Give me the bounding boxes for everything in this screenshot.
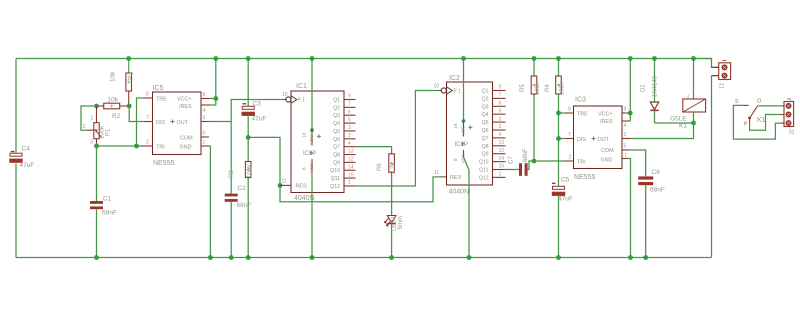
IC2 output Q7 pin 4 lead: [493, 137, 506, 139]
IC2 output Q10 pin 14 lead: [493, 161, 506, 163]
wire right rail to bottom bus: [711, 76, 713, 258]
svg-text:5mm: 5mm: [398, 216, 404, 229]
wire VCC bus to J1 pin 1: [694, 59, 719, 68]
svg-text:G5LE: G5LE: [670, 116, 687, 123]
wire IC5 TRI row to P1 bottom and C1: [97, 144, 142, 147]
svg-text:C7: C7: [509, 156, 515, 164]
svg-text:Q8: Q8: [333, 153, 340, 159]
junction TRE-TRI vertical at TRI row: [134, 144, 139, 149]
svg-text:9: 9: [348, 94, 351, 100]
svg-text:O: O: [757, 99, 761, 105]
svg-text:Q4: Q4: [482, 112, 489, 118]
svg-text:Q12: Q12: [330, 184, 340, 190]
wire GND bottom bus: [16, 257, 712, 259]
junction R3 at GND bus: [246, 255, 251, 260]
svg-text:14: 14: [499, 156, 505, 162]
IC3 origin cross: [592, 137, 596, 141]
wire IC5 GND pin1 to bottom bus: [209, 146, 210, 258]
svg-text:TRI: TRI: [577, 159, 586, 165]
svg-text:LED1: LED1: [392, 215, 398, 231]
svg-text:Q5: Q5: [333, 129, 340, 135]
capacitor C5 47uF (polarized): [553, 186, 565, 189]
connector J2 (3-pin): [784, 102, 794, 127]
svg-text:100K: 100K: [248, 164, 254, 178]
svg-text:6: 6: [348, 109, 351, 115]
IC3 pin 5 COM lead: [622, 149, 629, 151]
capacitor C4 47uF (polarized, on left rail): [10, 153, 22, 156]
svg-text:S: S: [735, 99, 739, 105]
svg-text:D1: D1: [641, 84, 647, 92]
wire node A down to IC5 DIS pin 7: [129, 106, 144, 122]
IC5 origin cross: [171, 120, 175, 124]
wire IC3 VCC pin8/pin4 to top bus: [629, 59, 631, 122]
wire IC1 Q12 to IC2 clock: [356, 91, 439, 186]
svg-text:R2: R2: [112, 113, 121, 120]
IC2 VDD pin 16 (from top bus): [463, 59, 465, 122]
svg-text:Q1: Q1: [482, 89, 489, 95]
svg-text:2: 2: [83, 124, 86, 130]
IC5 pin 7 DIS lead: [144, 121, 153, 123]
IC2 output Q3 pin 6 lead: [493, 105, 506, 107]
relay coil K1 G5LE: [693, 59, 695, 100]
IC2 output Q8 pin 13 lead: [493, 145, 506, 147]
svg-text:Q11: Q11: [331, 176, 341, 182]
wire IC1 VSS to GND bus: [311, 173, 313, 258]
junction R4 line at IC3 DIS pin 7: [556, 136, 561, 141]
IC1 output Q11 pin 15 lead: [344, 177, 356, 179]
svg-text:TRE: TRE: [156, 96, 167, 102]
svg-text:1: 1: [91, 116, 94, 122]
wire IC2 VSS diagonal to GND bus: [464, 157, 470, 258]
svg-text:10k: 10k: [108, 97, 119, 104]
svg-text:R6: R6: [377, 163, 383, 171]
svg-text:DIS: DIS: [577, 137, 586, 143]
wire IC3 COM to C6: [629, 150, 646, 176]
svg-text:9: 9: [499, 85, 502, 91]
svg-text:GND: GND: [180, 144, 192, 150]
svg-text:R4: R4: [545, 84, 551, 92]
wire to IC3 TRE pin 6: [559, 112, 566, 114]
svg-text:8: 8: [301, 167, 307, 170]
junction IC5 pin8/pin4: [213, 96, 218, 101]
junction TRI node: R5 / C7 / IC3 TRI: [532, 159, 537, 164]
IC5 pin 6 TRE lead: [144, 97, 153, 99]
junction C2 at GND bus: [229, 255, 234, 260]
junction R2 left / P1 top: [94, 104, 99, 109]
svg-text:Q12: Q12: [479, 175, 489, 181]
svg-text:R3: R3: [229, 170, 235, 178]
IC2 output Q6 pin 2 lead: [493, 129, 506, 131]
junction relay/D1/IC3-OUT node: [691, 121, 696, 126]
svg-text:TRI: TRI: [156, 144, 165, 150]
IC1 output Q4 pin 5 lead: [344, 122, 356, 124]
IC2 output Q9 pin 12 lead: [493, 153, 506, 155]
svg-text:P: P: [744, 122, 748, 128]
svg-text:68nF: 68nF: [237, 202, 252, 209]
wire IC5 VCC pin8/pin4 to top bus: [209, 98, 216, 100]
svg-text:2: 2: [499, 124, 502, 130]
svg-text:R1: R1: [128, 71, 135, 80]
svg-text:IC1: IC1: [296, 83, 307, 90]
svg-text:Q3: Q3: [482, 104, 489, 110]
IC2 output Q11 pin 15 lead: [493, 169, 506, 171]
wire IC5 OUT to IC1 clock: [209, 100, 284, 122]
capacitor C2 68nF: [225, 194, 238, 197]
svg-text:1: 1: [625, 153, 628, 159]
svg-text:3: 3: [499, 116, 502, 122]
IC2 output Q1 pin 9 lead: [493, 90, 506, 92]
IC1 origin cross gate A: [317, 134, 321, 138]
svg-text:Q9: Q9: [482, 152, 489, 158]
svg-text:13: 13: [499, 140, 505, 146]
wire IC1 Q7 to R6: [356, 147, 392, 154]
resistor R6 2.2k: [389, 154, 395, 173]
IC1 output Q1 pin 9 lead: [344, 99, 356, 101]
IC2 clock pin 10 (bubble): [439, 90, 442, 92]
svg-text:4: 4: [624, 123, 627, 129]
wire contact P to J2 pin 2: [750, 115, 782, 131]
IC2 output Q2 pin 7 lead: [493, 97, 506, 99]
IC3 pin 4 /RES lead: [622, 120, 630, 122]
IC1 RES pin 11 lead: [280, 184, 291, 186]
svg-text:K1: K1: [757, 117, 766, 124]
capacitor C1 68nF: [96, 146, 98, 201]
wire VCC top bus: [16, 58, 712, 60]
svg-text:8: 8: [453, 158, 459, 161]
svg-text:VDD: VDD: [309, 134, 315, 145]
svg-text:3: 3: [90, 140, 93, 146]
IC5 pin 8 VCC lead: [201, 98, 209, 100]
junction reset node: C3 / R3 / reset wire: [246, 135, 251, 140]
svg-text:8: 8: [624, 107, 627, 113]
svg-text:IC3: IC3: [575, 97, 586, 104]
svg-text:Q9: Q9: [333, 160, 340, 166]
svg-text:3: 3: [348, 125, 351, 131]
relay contact K1 (SPDT): [744, 104, 749, 106]
svg-text:RES: RES: [296, 184, 307, 190]
wire left supply rail: [15, 59, 17, 153]
svg-text:Q1: Q1: [333, 98, 340, 104]
capacitor C7 68nF (vertical plates): [519, 163, 522, 176]
junction node A: R1 bottom / R2 right / DIS: [127, 104, 132, 109]
IC2 origin cross gate P: [461, 142, 465, 146]
svg-text:11: 11: [282, 179, 287, 185]
IC5 pin 3 OUT lead: [201, 121, 209, 123]
svg-text:100k: 100k: [560, 81, 566, 95]
junction R1 top at VCC bus: [126, 56, 131, 61]
IC5 pin 1 GND lead: [201, 145, 209, 147]
svg-text:Q6: Q6: [482, 128, 489, 134]
IC1 clock pin 10 (bubble): [284, 99, 286, 101]
svg-text:GND: GND: [601, 157, 613, 163]
svg-text:IC2P: IC2P: [455, 142, 468, 148]
wire IC5 TRE to TRI (pins 6-2): [137, 98, 145, 146]
svg-text:16: 16: [301, 132, 307, 138]
junction R4 line at IC3 TRE pin 6: [556, 111, 561, 116]
svg-text:1N4148: 1N4148: [653, 75, 659, 97]
capacitor C3 47uF (polarized): [247, 59, 249, 107]
diode D1 1N4148: [654, 59, 656, 102]
wire to IC3 DIS pin 7: [559, 138, 566, 140]
svg-text:47uF: 47uF: [558, 196, 573, 203]
IC2 output Q5 pin 3 lead: [493, 121, 506, 123]
potentiometer P1 100k (trimmer): [96, 106, 98, 123]
svg-text:Q3: Q3: [333, 113, 340, 119]
IC2 RES pin 11 lead: [441, 176, 447, 178]
wire IC5 OUT down to C2: [230, 122, 232, 194]
junction C6 at GND bus: [643, 255, 648, 260]
junction IC3 pin8/pin4: [628, 111, 633, 116]
junction IC1 RES pin 11: [278, 183, 283, 188]
svg-text:Q7: Q7: [482, 136, 489, 142]
svg-text:2: 2: [146, 140, 149, 146]
resistor R2 10k (horizontal): [104, 103, 120, 109]
svg-text:C1: C1: [103, 196, 112, 203]
svg-text:2: 2: [569, 155, 572, 161]
svg-text:10k: 10k: [110, 71, 117, 82]
wire IC3 GND to bottom bus: [627, 159, 631, 258]
svg-text:12: 12: [499, 148, 505, 154]
IC2 origin cross gate A: [468, 125, 472, 129]
svg-text:12: 12: [348, 157, 354, 163]
svg-text:7: 7: [568, 132, 571, 138]
svg-text:Q2: Q2: [333, 105, 340, 111]
svg-text:8: 8: [203, 92, 206, 98]
svg-text:16: 16: [453, 123, 459, 129]
svg-text:3: 3: [203, 115, 206, 121]
wire TRI node to IC3 TRI pin 2: [534, 160, 565, 162]
resistor R3 100K: [247, 137, 249, 161]
svg-text:15: 15: [348, 172, 354, 178]
wire IC3 OUT to relay node: [630, 123, 694, 139]
svg-text:/RES: /RES: [179, 104, 192, 110]
svg-text:/RES: /RES: [600, 119, 613, 125]
junction C5 at GND bus: [556, 255, 561, 260]
svg-text:VCC+: VCC+: [598, 111, 613, 117]
svg-text:15: 15: [499, 164, 505, 170]
svg-text:C5: C5: [561, 177, 570, 184]
svg-text:DIS: DIS: [156, 120, 165, 126]
IC1 output Q3 pin 6 lead: [344, 114, 356, 116]
svg-text:4040N: 4040N: [449, 189, 470, 196]
svg-text:2.2k: 2.2k: [391, 162, 397, 174]
junction P1 bottom / C1 top: [94, 144, 99, 149]
svg-text:Q2: Q2: [482, 96, 489, 102]
wire P1 wiper to P1 top node: [81, 106, 94, 130]
svg-text:TRE: TRE: [577, 111, 588, 117]
IC1 output Q2 pin 7 lead: [344, 106, 356, 108]
IC1 origin cross gate P: [309, 151, 313, 155]
svg-text:Q7: Q7: [333, 145, 340, 151]
IC1 VDD pin 16 (from top bus): [311, 59, 313, 131]
svg-text:7: 7: [146, 115, 149, 121]
svg-text:Q4: Q4: [333, 121, 340, 127]
junction IC5 GND at bus: [208, 255, 213, 260]
IC1 output Q9 pin 12 lead: [344, 161, 356, 163]
IC1 VSS pin 8: [311, 159, 313, 173]
svg-text:Q8: Q8: [482, 144, 489, 150]
svg-text:6: 6: [499, 101, 502, 107]
svg-text:J2: J2: [788, 128, 794, 135]
IC1 output Q8 pin 13 lead: [344, 154, 356, 156]
wire IC2 Q11 to C7: [506, 169, 520, 171]
IC2 VSS pin 8: [463, 150, 465, 157]
IC5 pin 5 COM lead: [201, 136, 209, 138]
wire LED1 cathode to GND bus: [391, 224, 393, 258]
svg-text:5: 5: [624, 144, 627, 150]
svg-text:VDD: VDD: [460, 125, 466, 136]
svg-text:Q5: Q5: [482, 120, 489, 126]
svg-text:P 1: P 1: [298, 97, 306, 103]
svg-text:IC2: IC2: [449, 75, 460, 82]
IC1 output Q10 pin 14 lead: [344, 169, 356, 171]
svg-text:VSS: VSS: [309, 163, 315, 173]
svg-text:NE555: NE555: [574, 174, 596, 181]
svg-text:5: 5: [348, 117, 351, 123]
IC5 pin 4 /RES lead: [201, 104, 209, 106]
IC1 output Q7 pin 4 lead: [344, 146, 356, 148]
svg-text:2: 2: [348, 133, 351, 139]
wire reset node to IC1 RES and IC2 RES: [248, 137, 280, 185]
wire C7 to TRI node: [528, 161, 534, 170]
svg-text:4: 4: [499, 132, 502, 138]
svg-text:5: 5: [203, 131, 206, 137]
svg-text:J1: J1: [718, 83, 724, 90]
svg-text:OUT: OUT: [598, 137, 610, 143]
svg-text:6: 6: [146, 92, 149, 98]
svg-text:68nF: 68nF: [102, 210, 117, 217]
svg-text:IC5: IC5: [153, 85, 164, 92]
junction C1 at GND bus: [94, 255, 99, 260]
IC1 output Q6 pin 2 lead: [344, 138, 356, 140]
capacitor C6 68nF: [638, 176, 653, 179]
svg-text:47uF: 47uF: [252, 116, 267, 123]
IC3 pin 3 OUT lead: [622, 138, 630, 140]
svg-text:7: 7: [499, 93, 502, 99]
op-amp timer IC3 NE555 box: [574, 106, 623, 169]
svg-text:R5: R5: [520, 84, 526, 92]
svg-text:IC1P: IC1P: [303, 151, 316, 157]
svg-text:C4: C4: [22, 146, 31, 153]
svg-text:47uF: 47uF: [20, 162, 35, 169]
svg-text:10: 10: [434, 84, 440, 90]
svg-text:C2: C2: [238, 185, 247, 192]
junction IC5 VCC at bus: [213, 56, 218, 61]
LED LED1 5mm: [387, 216, 396, 223]
svg-text:4: 4: [203, 108, 206, 114]
svg-text:Q6: Q6: [333, 137, 340, 143]
IC3 pin 8 VCC lead: [622, 112, 630, 114]
svg-text:68nF: 68nF: [650, 187, 665, 194]
wire D1 to relay node: [655, 122, 694, 124]
svg-text:1: 1: [499, 172, 502, 178]
IC2 output Q4 pin 5 lead: [493, 113, 506, 115]
svg-text:Q10: Q10: [479, 160, 489, 166]
svg-text:Q10: Q10: [330, 168, 340, 174]
svg-text:1: 1: [348, 180, 351, 186]
op-amp timer IC5 NE555 box: [153, 92, 202, 155]
svg-text:68nF: 68nF: [523, 148, 529, 162]
svg-text:COM: COM: [180, 135, 193, 141]
resistor R4 100k: [558, 59, 560, 77]
svg-text:7: 7: [348, 102, 351, 108]
svg-text:3: 3: [624, 132, 627, 138]
svg-text:14: 14: [348, 164, 354, 170]
IC1 output Q12 pin 1 lead: [344, 185, 356, 187]
svg-text:100k: 100k: [535, 81, 541, 95]
svg-text:VCC+: VCC+: [177, 96, 192, 102]
wire contact S to J2 pin 3: [733, 105, 781, 139]
svg-text:5: 5: [499, 108, 502, 114]
svg-text:COM: COM: [601, 148, 614, 154]
resistor R1 10k: [128, 59, 130, 74]
svg-text:6: 6: [568, 107, 571, 113]
resistor R5 100k: [533, 59, 535, 77]
connector J1 (2-pin): [719, 63, 731, 80]
IC2 output Q12 pin 1 lead: [493, 176, 506, 178]
junction C3 at VCC bus: [246, 56, 251, 61]
svg-text:RES: RES: [450, 175, 461, 181]
svg-text:OUT: OUT: [177, 120, 189, 126]
svg-text:NE555: NE555: [153, 160, 175, 167]
counter IC1 4040N box: [291, 91, 344, 193]
wire contact O to J2 pin 1: [759, 105, 782, 107]
svg-text:13: 13: [348, 149, 354, 155]
svg-text:P1: P1: [106, 128, 112, 136]
IC3 pin 1 GND lead: [622, 158, 627, 160]
IC1 output Q5 pin 3 lead: [344, 130, 356, 132]
svg-text:P 1: P 1: [454, 88, 462, 94]
svg-text:Q11: Q11: [479, 168, 489, 174]
svg-text:C6: C6: [652, 169, 661, 176]
svg-text:C3: C3: [253, 101, 262, 108]
svg-text:10: 10: [282, 92, 288, 98]
svg-text:11: 11: [434, 170, 439, 176]
counter IC2 4040N box: [447, 82, 493, 185]
svg-text:1: 1: [203, 140, 206, 146]
svg-text:4: 4: [348, 141, 351, 147]
